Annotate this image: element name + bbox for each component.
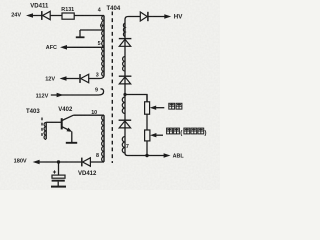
transformer T403 core (dashed)	[41, 118, 43, 138]
T404 primary winding (pins 4-9)	[102, 16, 104, 77]
node AFC arrow	[60, 45, 67, 50]
node 180V arrow	[33, 160, 40, 165]
scan grain overlay	[0, 0, 220, 190]
secondary main wire	[125, 17, 140, 154]
node ABL arrow	[164, 153, 171, 158]
junction 180V node	[57, 160, 60, 163]
wire pin4 row	[33, 15, 105, 17]
wire pin9 row (112V)	[51, 89, 104, 95]
wire divider column	[146, 95, 148, 156]
wire pin7 to ABL	[125, 153, 165, 156]
focus label (聚焦)	[169, 103, 175, 109]
wire tap to divider	[125, 95, 147, 102]
node 112V arrow	[57, 93, 64, 98]
transistor V402	[62, 115, 74, 130]
junction secondary tap node	[123, 93, 126, 96]
ground (emitter)	[66, 142, 77, 144]
T404 winding pins 10-8	[102, 115, 104, 162]
transformer T403 winding	[44, 122, 61, 139]
resistor R131	[62, 13, 74, 19]
wire pin6 row	[80, 29, 104, 31]
transformer T404 core (dashed)	[111, 12, 113, 164]
potentiometer focus	[145, 102, 150, 114]
diode D2 (secondary)	[119, 76, 132, 84]
diode VD411	[42, 11, 50, 20]
diode D1 (secondary)	[119, 39, 132, 47]
node 12V arrow	[60, 76, 67, 81]
diode VD412	[82, 158, 91, 167]
T404 secondary winding S4	[122, 137, 125, 154]
wire pin10 row (collector)	[73, 114, 104, 116]
ground (capacitor)	[51, 186, 66, 188]
T404 secondary winding S2	[123, 57, 125, 71]
diode HV rectifier	[140, 12, 148, 21]
wire pin3 row (12V)	[66, 76, 104, 79]
diode VD (12V rectifier)	[80, 74, 89, 83]
T404 secondary winding S1	[123, 23, 125, 37]
screen-grid label (帘栅(加速极))	[167, 128, 173, 134]
wire pin5 row (AFC)	[66, 46, 103, 48]
potentiometer screen-grid	[145, 130, 150, 141]
node HV arrow	[164, 14, 171, 19]
wire HV out	[148, 16, 165, 18]
T404 secondary winding S3	[122, 97, 125, 114]
capacitor C (electrolytic)	[58, 162, 60, 175]
wire emitter down	[71, 132, 73, 143]
junction ABL node	[145, 154, 148, 157]
wire pin8 row (180V)	[39, 161, 104, 163]
ground (pin 6)	[79, 30, 81, 37]
diode D3 (secondary)	[119, 120, 132, 128]
node 24V arrow	[26, 13, 33, 18]
